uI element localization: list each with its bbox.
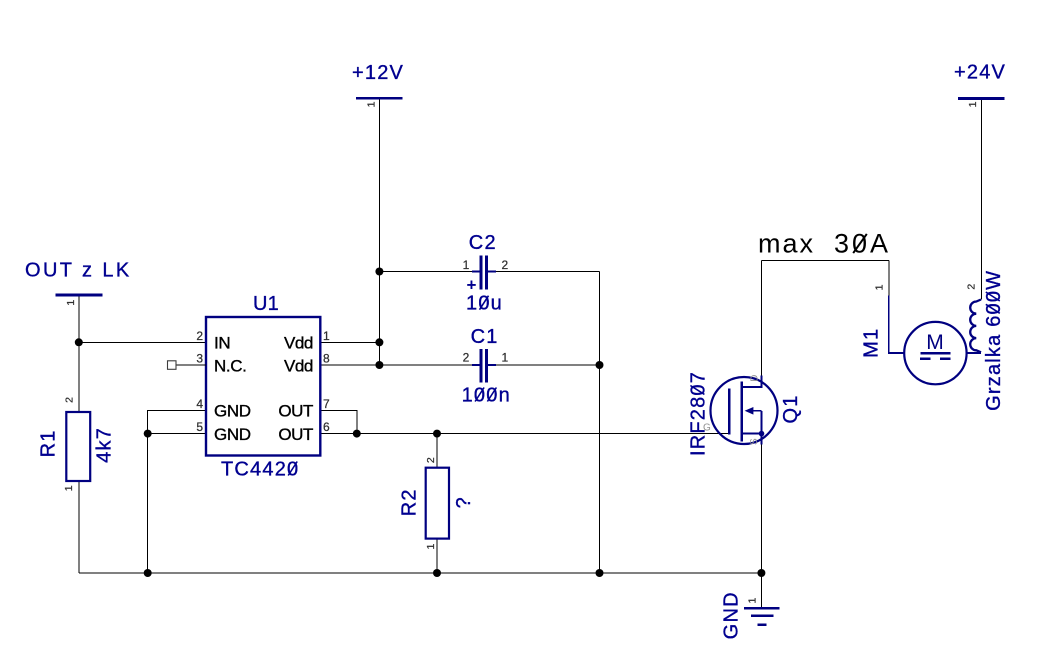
- svg-text:1: 1: [323, 329, 330, 343]
- svg-text:OUT: OUT: [278, 425, 313, 444]
- svg-text:TC4420: TC4420: [221, 459, 299, 481]
- wire pin8 Vdd to C1: [320, 364, 480, 366]
- svg-text:1: 1: [747, 598, 759, 604]
- label max 30A: [758, 229, 891, 259]
- wire down to M1: [888, 261, 890, 296]
- capacitor C2 10u: [463, 232, 509, 315]
- junction pin1: [375, 338, 383, 346]
- transistor Q1 IRF2807: [687, 371, 802, 456]
- inductor Grzalka 600W: [966, 270, 1005, 411]
- svg-text:Grzalka 600W: Grzalka 600W: [983, 270, 1005, 411]
- wire +24V vertical: [980, 100, 982, 300]
- wire Q1 drain up: [760, 261, 762, 377]
- svg-text:1: 1: [967, 101, 979, 107]
- wire R1 bottom: [78, 481, 80, 573]
- wire pin1 Vdd: [320, 341, 379, 343]
- svg-text:2: 2: [966, 284, 978, 290]
- ground GND: [720, 591, 779, 639]
- svg-text:GND: GND: [214, 402, 251, 421]
- junction bus Q1 source: [757, 569, 765, 577]
- wire Q1 source down: [760, 444, 762, 607]
- svg-text:?: ?: [453, 496, 475, 508]
- wire R2 bottom: [436, 539, 438, 573]
- svg-text:4: 4: [196, 397, 203, 411]
- wire ground bus: [79, 572, 762, 574]
- svg-text:Vdd: Vdd: [284, 356, 313, 375]
- wire pin7 OUT jog: [320, 410, 357, 433]
- svg-text:5: 5: [196, 420, 203, 434]
- svg-text:1: 1: [63, 485, 75, 491]
- junction pin5 GND: [144, 430, 152, 438]
- svg-text:Q1: Q1: [780, 394, 802, 423]
- supply +12V: [352, 62, 404, 107]
- svg-text:6: 6: [323, 420, 330, 434]
- junction bus GND pins: [144, 569, 152, 577]
- junction R2 top: [433, 430, 441, 438]
- svg-text:3: 3: [196, 352, 203, 366]
- wire C2 branch left: [379, 271, 480, 273]
- wire C2 branch right: [488, 271, 600, 273]
- svg-text:1: 1: [366, 101, 378, 107]
- svg-text:4k7: 4k7: [93, 427, 115, 463]
- wire OUT row pin6 to gate: [320, 433, 729, 435]
- op-amp U1 TC4420: [196, 293, 330, 481]
- svg-text:1: 1: [65, 300, 77, 306]
- svg-text:R1: R1: [38, 429, 60, 457]
- svg-text:1: 1: [463, 258, 470, 272]
- svg-text:30A: 30A: [834, 229, 891, 259]
- svg-text:U1: U1: [253, 293, 279, 315]
- svg-text:C2: C2: [469, 232, 497, 254]
- svg-text:C1: C1: [471, 326, 499, 348]
- pin3 N.C. stub: [168, 361, 207, 370]
- svg-text:M: M: [926, 331, 944, 354]
- wire pin5 GND: [148, 433, 206, 435]
- svg-text:1: 1: [425, 544, 437, 550]
- svg-text:1: 1: [874, 284, 886, 290]
- junction +12V/C2: [375, 268, 383, 276]
- svg-text:1: 1: [502, 351, 509, 365]
- wire OUTzLK down to R1: [78, 296, 80, 412]
- motor M1: [861, 284, 967, 384]
- svg-text:+: +: [467, 276, 477, 295]
- capacitor C1 100n: [462, 326, 511, 407]
- svg-text:IRF2807: IRF2807: [687, 371, 709, 456]
- svg-text:R2: R2: [398, 488, 420, 516]
- supply +24V: [954, 62, 1006, 108]
- svg-text:2: 2: [64, 397, 76, 403]
- svg-text:2: 2: [502, 258, 509, 272]
- svg-text:2: 2: [463, 351, 470, 365]
- svg-text:M1: M1: [861, 328, 883, 358]
- svg-text:OUT z LK: OUT z LK: [25, 260, 132, 282]
- junction bus right vertical: [596, 569, 604, 577]
- junction C1 right: [596, 361, 604, 369]
- svg-text:GND: GND: [214, 425, 251, 444]
- svg-text:+12V: +12V: [352, 62, 404, 84]
- svg-text:IN: IN: [214, 334, 230, 353]
- svg-text:2: 2: [425, 457, 437, 463]
- junction pin6 OUT: [353, 430, 361, 438]
- wire max30A horizontal: [761, 260, 888, 262]
- svg-text:+24V: +24V: [954, 62, 1006, 84]
- resistor R2 ?: [398, 457, 475, 549]
- wire +12V vertical: [378, 100, 380, 366]
- junction pin8: [375, 361, 383, 369]
- svg-text:max: max: [758, 229, 815, 259]
- svg-text:GND: GND: [720, 591, 742, 639]
- svg-text:7: 7: [323, 397, 330, 411]
- svg-text:D: D: [749, 375, 760, 382]
- svg-text:10u: 10u: [466, 293, 503, 315]
- wire C1 right: [488, 364, 600, 366]
- svg-text:Vdd: Vdd: [284, 334, 313, 353]
- wire pin4 GND jog: [148, 410, 206, 573]
- svg-text:N.C.: N.C.: [214, 356, 246, 375]
- svg-text:2: 2: [196, 329, 203, 343]
- connector OUT z LK: [25, 260, 132, 306]
- wire right vertical: [599, 272, 601, 574]
- resistor R1 4k7: [38, 397, 116, 491]
- wire R2 top: [436, 434, 438, 468]
- svg-text:OUT: OUT: [278, 402, 313, 421]
- wire IN: [79, 341, 206, 343]
- svg-text:8: 8: [323, 352, 330, 366]
- svg-text:100n: 100n: [462, 385, 511, 407]
- junction bus R2: [433, 569, 441, 577]
- junction IN branch: [75, 338, 83, 346]
- svg-text:S: S: [749, 438, 760, 445]
